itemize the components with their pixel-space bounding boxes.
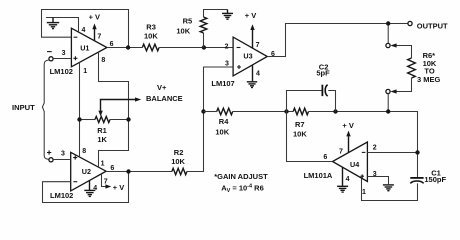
op-amp U3 (233, 37, 267, 76)
svg-text:6: 6 (323, 154, 327, 161)
svg-text:10K: 10K (144, 31, 158, 40)
svg-text:4: 4 (346, 176, 350, 183)
svg-text:1: 1 (362, 189, 366, 196)
svg-text:U4: U4 (350, 160, 359, 169)
svg-text:LM107: LM107 (211, 79, 234, 88)
svg-text:8: 8 (82, 148, 86, 155)
resistor R5 (200, 10, 227, 48)
svg-text:10K: 10K (293, 130, 307, 139)
svg-text:AV = 10-4 R6: AV = 10-4 R6 (221, 184, 264, 195)
svg-text:10K: 10K (215, 127, 229, 136)
R1 wiper arrow to V+ balance (98, 97, 141, 116)
svg-text:3: 3 (373, 171, 377, 178)
svg-text:R7: R7 (295, 120, 305, 129)
svg-text:U3: U3 (243, 52, 252, 61)
svg-text:7: 7 (339, 148, 343, 155)
svg-text:1: 1 (83, 68, 87, 75)
node B junction (333, 109, 337, 113)
op-amp U2 (71, 152, 106, 191)
svg-text:V+: V+ (157, 83, 167, 92)
wire U4 pin 3 to ground (367, 177, 388, 185)
svg-text:3: 3 (61, 150, 65, 157)
wire input to U2 pin 3 (53, 159, 71, 161)
wire junction to R6 top terminal (387, 26, 389, 44)
wire U4 output to node A (287, 112, 333, 162)
+V arrow U2 pin 7 (102, 174, 112, 189)
ground (U1 pin 4) (47, 18, 59, 29)
R6 top terminal circle (386, 43, 390, 47)
node U1 output junction (126, 45, 130, 49)
wire U4 pin 1 to C1 bottom (362, 178, 418, 200)
svg-text:8: 8 (101, 57, 105, 64)
svg-text:INPUT: INPUT (12, 103, 35, 112)
svg-text:6: 6 (110, 41, 114, 48)
svg-text:+ V: + V (342, 121, 353, 130)
svg-text:2: 2 (373, 144, 377, 151)
wire U1 feedback loop output to inverting input (42, 10, 129, 48)
input terminal circle (to U1) (49, 57, 53, 61)
svg-text:+ V: + V (113, 183, 124, 192)
wire R6 bottom to R7 rail (387, 94, 389, 112)
svg-text:LM101A: LM101A (304, 171, 333, 180)
svg-text:LM102: LM102 (50, 191, 73, 200)
ground (U3 pin 4) (247, 65, 257, 87)
node pin2/C1 rail junction (415, 150, 419, 154)
svg-text:4: 4 (82, 27, 86, 34)
svg-text:2: 2 (225, 44, 229, 51)
resistor R4 (217, 108, 233, 115)
wire R4 to node A (233, 111, 294, 113)
svg-text:1: 1 (101, 160, 105, 167)
node output rail junction (386, 21, 390, 25)
svg-text:R1: R1 (97, 126, 107, 135)
+V arrow U3 pin 7 (250, 24, 254, 48)
capacitor C2 parallel loop wires (287, 91, 336, 112)
svg-text:R5: R5 (183, 16, 193, 25)
node A junction (284, 109, 288, 113)
svg-text:7: 7 (104, 179, 108, 186)
+V arrow U1 pin 7 (92, 23, 96, 40)
node R6 bottom junction (386, 109, 390, 113)
wire U4 pin 2 to C1 rail (367, 152, 417, 154)
node R1 right junction (126, 117, 130, 121)
op-amp U4 (points left) (333, 142, 368, 182)
svg-text:7: 7 (256, 42, 260, 49)
input port bracket line (42, 60, 49, 159)
R6 bottom terminal circle (386, 89, 390, 93)
resistor R1 potentiometer (80, 117, 129, 123)
ground (U2 pin 4) (84, 181, 95, 197)
svg-text:3: 3 (225, 60, 229, 67)
svg-text:LM102: LM102 (50, 67, 73, 76)
svg-text:R3: R3 (146, 22, 156, 31)
ground (U4 pin 4) (337, 167, 348, 192)
input terminal plus polarity (47, 150, 51, 154)
wire R2 to U3 pin 3 (187, 67, 233, 172)
pin 8 wire U1 / pin 1 wire U2 to R1 (99, 52, 129, 167)
wire R7 to C1 rail (309, 112, 418, 178)
svg-text:U2: U2 (82, 167, 91, 176)
svg-text:U1: U1 (80, 43, 89, 52)
svg-text:7: 7 (97, 33, 101, 40)
capacitor C1 (410, 178, 423, 184)
svg-text:R4: R4 (219, 117, 229, 126)
svg-text:+ V: + V (245, 11, 256, 20)
input terminal circle (to U2) (49, 158, 53, 162)
svg-text:+ V: + V (89, 12, 100, 21)
wire U1 output to R3 (107, 47, 142, 49)
svg-text:5pF: 5pF (316, 69, 330, 78)
wire U2 output to R2 (106, 171, 172, 173)
resistor R2 (172, 168, 187, 174)
ground (R5) (222, 10, 233, 20)
svg-text:OUTPUT: OUTPUT (417, 21, 448, 30)
svg-text:150pF: 150pF (424, 175, 446, 184)
wire R3 to U3 pin 2 (159, 47, 233, 49)
node R4 junction on R2 riser (201, 109, 205, 113)
+V arrow U4 pin 7 (346, 131, 350, 153)
wire U2 feedback loop output to inverting input (43, 172, 129, 203)
svg-text:R2: R2 (174, 148, 184, 157)
svg-text:BALANCE: BALANCE (146, 94, 183, 103)
wire junction to R4 (204, 111, 217, 113)
resistor R3 (142, 44, 159, 51)
OUTPUT terminal circle (408, 21, 412, 25)
svg-text:10K: 10K (171, 157, 185, 166)
svg-text:3 MEG: 3 MEG (417, 75, 441, 84)
wire U3 output to top rail and OUTPUT (267, 24, 408, 57)
svg-text:10K: 10K (176, 26, 190, 35)
svg-text:3: 3 (62, 50, 66, 57)
capacitor C2 (322, 85, 327, 96)
ground (U4 pin 3) (383, 185, 394, 191)
pin 1 wire U1 to R1 (79, 62, 81, 157)
svg-text:*GAIN ADJUST: *GAIN ADJUST (214, 172, 268, 181)
wire U1 pin 4 to ground (46, 18, 79, 32)
op-amp U1 (71, 28, 107, 67)
resistor R7 (293, 108, 308, 115)
resistor R6 with arrows (390, 43, 415, 93)
node R1 left junction (77, 117, 81, 121)
svg-text:4: 4 (256, 71, 260, 78)
svg-text:6: 6 (110, 165, 114, 172)
svg-text:1K: 1K (97, 135, 107, 144)
input terminal minus polarity (47, 51, 52, 53)
wire input to U1 pin 3 (53, 58, 71, 60)
node U2 output junction (126, 169, 130, 173)
svg-text:4: 4 (93, 185, 97, 192)
node R3/R5 junction (202, 45, 206, 49)
